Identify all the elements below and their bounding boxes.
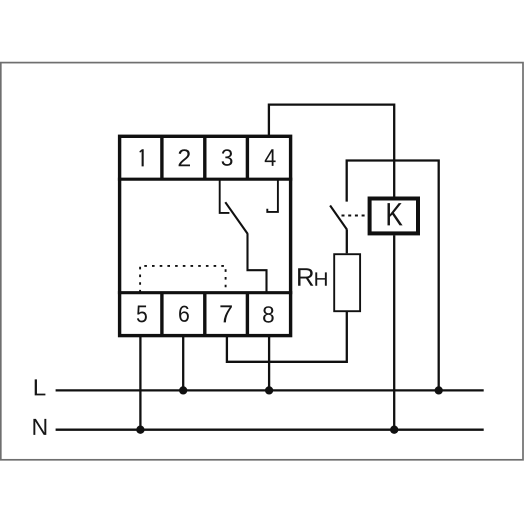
resistor RH <box>334 254 360 311</box>
wire contact pole to terminal 8 <box>248 233 267 293</box>
wire terminal 6 to L <box>182 337 184 390</box>
junction switch-L <box>435 386 443 394</box>
junction K-N <box>390 426 398 434</box>
junction t6-L <box>179 386 187 394</box>
terminal 7 <box>220 293 247 335</box>
label L <box>35 379 46 395</box>
node N line <box>56 429 484 431</box>
wire terminal 5 to N <box>139 337 141 430</box>
switch SB blade <box>330 206 347 230</box>
terminal 4 <box>265 149 276 166</box>
label RH <box>298 268 327 286</box>
relay contact fixed pin 3 <box>220 180 230 213</box>
relay coil K <box>370 199 418 234</box>
terminal 1 <box>139 137 161 179</box>
relay contact blade <box>225 202 247 233</box>
terminal 2 <box>179 137 205 179</box>
label N <box>33 419 46 435</box>
wire switch branch to L <box>347 161 439 391</box>
wire terminal 8 to L <box>268 337 270 390</box>
junction t8-L <box>265 386 273 394</box>
terminal 8 <box>263 306 274 322</box>
junction t5-N <box>136 426 144 434</box>
wire coil K to N <box>393 235 395 429</box>
wire switch to resistor <box>346 230 348 254</box>
terminal 6 <box>179 293 205 335</box>
terminal 3 <box>222 137 248 179</box>
wire terminal 4 to coil K top <box>269 105 394 197</box>
terminal 5 <box>137 293 162 335</box>
dotted function outline <box>140 266 226 293</box>
device body U1 outline <box>118 136 292 335</box>
relay contact fixed pin 4 <box>267 180 278 212</box>
switch linkage dotted <box>342 215 368 217</box>
wire resistor to terminal 7 <box>227 312 347 362</box>
node L line <box>56 389 484 391</box>
